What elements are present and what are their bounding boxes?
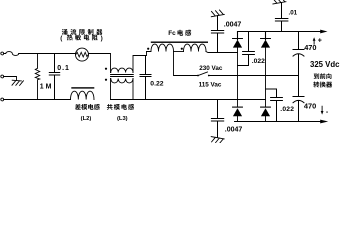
capacitor .01	[275, 3, 288, 32]
label 到前向	[314, 73, 319, 79]
diode D4	[261, 106, 271, 108]
inductor Fc core bar	[151, 42, 208, 43]
wire bottom rail left	[4, 99, 71, 101]
label 涌流限制器	[62, 29, 68, 35]
capacitor snubber .022 bottom	[266, 89, 283, 122]
node dot Fc left	[147, 48, 149, 50]
chassis ground bottom	[211, 137, 224, 144]
inductor Fc winding 1	[147, 44, 174, 51]
svg-text:.022: .022	[252, 58, 265, 65]
inductor L2 winding	[71, 91, 94, 99]
svg-text:325 Vdc: 325 Vdc	[310, 60, 340, 69]
fuse F1	[4, 52, 19, 56]
terminal top input	[1, 52, 4, 55]
diode D1	[233, 32, 243, 40]
svg-text:(L2): (L2)	[81, 116, 92, 122]
svg-text:Fc: Fc	[168, 30, 176, 37]
wire bottom rail middle	[111, 99, 266, 101]
wire diode column 2	[265, 48, 267, 107]
terminal middle input	[1, 75, 4, 78]
diode D2	[261, 32, 271, 40]
capacitor Y2 .0047	[211, 100, 223, 138]
capacitor bulk 470 bottom	[293, 76, 304, 122]
svg-text:115 Vac: 115 Vac	[199, 81, 222, 88]
arrow plus out	[320, 30, 327, 34]
diode D3	[233, 106, 243, 108]
arrow minus out	[320, 120, 328, 124]
svg-text:0.22: 0.22	[150, 81, 163, 88]
resistor 1M	[35, 54, 39, 100]
inductor Fc winding 2	[184, 44, 207, 51]
svg-text:(L3): (L3)	[117, 116, 128, 122]
arrow polarity minus	[321, 106, 323, 111]
wire diode column 1	[237, 48, 239, 107]
svg-text:-: -	[326, 109, 329, 116]
node dot choke top	[105, 68, 107, 70]
svg-text:470: 470	[304, 43, 316, 52]
wire switch drop	[174, 52, 198, 76]
choke L3 core	[111, 75, 134, 77]
chassis ground top	[211, 10, 224, 17]
choke L3 top winding	[111, 68, 133, 72]
wire top rail to choke	[89, 54, 111, 73]
svg-text:): )	[101, 35, 103, 42]
svg-text:.0047: .0047	[224, 22, 242, 29]
wire earth lead	[4, 77, 17, 81]
svg-text:230 Vac: 230 Vac	[199, 65, 223, 72]
capacitor 0.22	[140, 56, 151, 100]
capacitor 0.1	[49, 54, 59, 100]
capacitor Y1 .0047	[211, 16, 223, 53]
chassis ground input	[12, 80, 23, 85]
wire choke bottom left lead	[110, 79, 112, 100]
node dot Fc middle	[181, 48, 183, 50]
wire top rail to bridge	[206, 52, 238, 53]
capacitor snubber .022 top	[238, 32, 255, 66]
wire choke top right lead	[133, 52, 147, 73]
inductor L2 core bar	[71, 87, 94, 88]
svg-text:.01: .01	[289, 10, 298, 17]
thermistor RT1	[76, 48, 89, 61]
label 差模电感	[75, 104, 81, 110]
capacitor bulk 470 top	[293, 32, 304, 76]
wire mid rail	[209, 75, 299, 77]
svg-text:1 M: 1 M	[40, 83, 52, 90]
terminal bottom input	[1, 98, 4, 101]
chassis ground .01	[273, 0, 286, 4]
svg-text:.0047: .0047	[225, 126, 243, 133]
choke L3 bottom winding	[111, 79, 133, 83]
wire plus bus	[238, 31, 322, 33]
wire minus bus	[235, 121, 322, 123]
label 共模电感	[107, 104, 113, 110]
svg-text:0.1: 0.1	[57, 65, 70, 72]
wire choke bottom right lead	[132, 79, 134, 100]
arrow polarity plus	[313, 40, 315, 44]
node dot choke bottom	[105, 79, 107, 81]
wire Fc midpoint	[174, 51, 184, 53]
wire top rail left	[19, 53, 76, 55]
svg-text:+: +	[318, 38, 322, 45]
label 转换器	[313, 82, 319, 88]
svg-text:.022: .022	[280, 106, 294, 113]
svg-text:(: (	[60, 35, 63, 42]
switch blade SW1	[197, 75, 199, 77]
svg-text:470: 470	[304, 101, 316, 110]
